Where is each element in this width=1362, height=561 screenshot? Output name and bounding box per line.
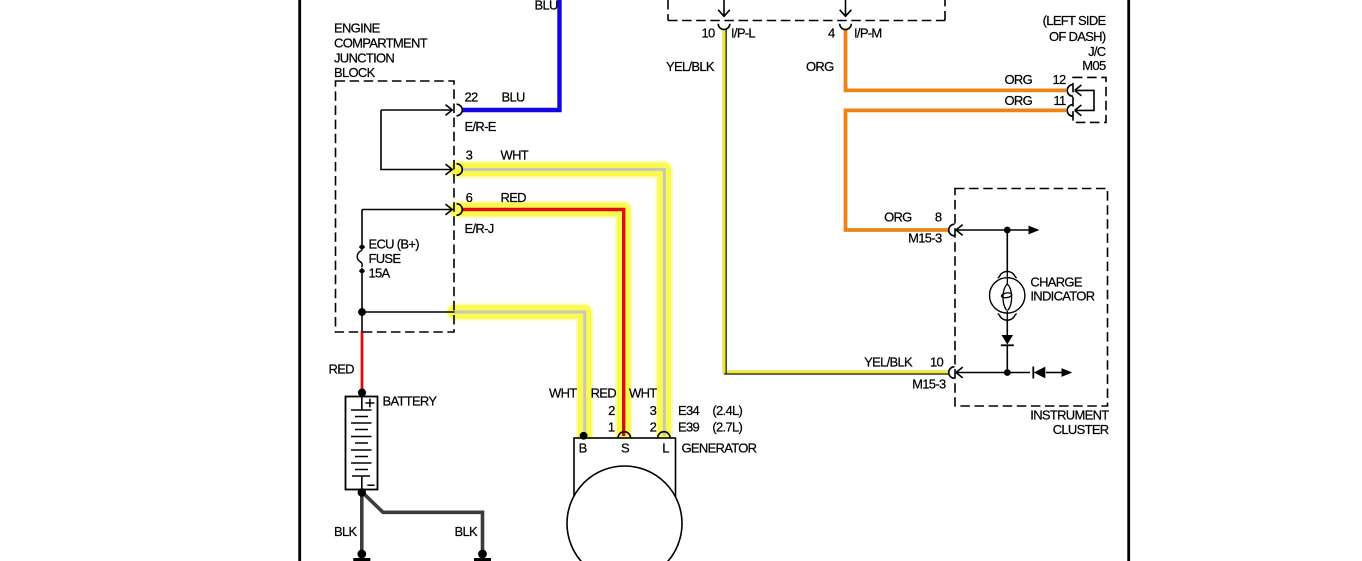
svg-text:ORG: ORG: [1004, 72, 1032, 87]
svg-text:12: 12: [1052, 72, 1066, 87]
svg-text:WHT: WHT: [549, 385, 577, 400]
svg-text:E34: E34: [678, 403, 700, 418]
svg-text:(LEFT SIDE: (LEFT SIDE: [1043, 13, 1107, 28]
svg-text:M15-3: M15-3: [912, 377, 946, 392]
svg-text:OF DASH): OF DASH): [1049, 29, 1106, 44]
svg-text:BLK: BLK: [334, 524, 358, 539]
svg-text:RED: RED: [329, 362, 355, 377]
svg-text:22: 22: [465, 90, 479, 105]
svg-text:ORG: ORG: [884, 209, 912, 224]
svg-text:(2.4L): (2.4L): [712, 403, 742, 418]
svg-text:6: 6: [466, 190, 473, 205]
svg-text:JUNCTION: JUNCTION: [334, 50, 394, 65]
svg-text:YEL/BLK: YEL/BLK: [666, 59, 715, 74]
svg-text:15A: 15A: [369, 266, 391, 281]
svg-text:YEL/BLK: YEL/BLK: [864, 355, 913, 370]
svg-text:1: 1: [608, 420, 615, 435]
svg-text:COMPARTMENT: COMPARTMENT: [334, 36, 428, 51]
svg-text:8: 8: [935, 209, 942, 224]
svg-text:RED: RED: [591, 385, 617, 400]
svg-text:FUSE: FUSE: [369, 251, 402, 266]
svg-text:INDICATOR: INDICATOR: [1030, 288, 1094, 303]
svg-text:E/R-J: E/R-J: [465, 221, 494, 236]
svg-text:BATTERY: BATTERY: [383, 394, 438, 409]
svg-text:L: L: [662, 441, 669, 456]
svg-text:GENERATOR: GENERATOR: [682, 440, 757, 455]
svg-text:INSTRUMENT: INSTRUMENT: [1030, 408, 1109, 423]
svg-text:BLOCK: BLOCK: [334, 65, 376, 80]
svg-text:E39: E39: [678, 420, 700, 435]
svg-text:(2.7L): (2.7L): [712, 420, 742, 435]
svg-text:4: 4: [828, 25, 835, 40]
svg-text:3: 3: [466, 148, 473, 163]
svg-text:11: 11: [1053, 93, 1066, 108]
svg-text:J/C: J/C: [1088, 44, 1106, 59]
svg-text:2: 2: [650, 420, 657, 435]
svg-text:CLUSTER: CLUSTER: [1053, 422, 1109, 437]
svg-text:ORG: ORG: [1004, 93, 1032, 108]
svg-text:I/P-M: I/P-M: [854, 25, 882, 40]
svg-text:BLU: BLU: [535, 0, 559, 13]
svg-text:M15-3: M15-3: [908, 231, 942, 246]
svg-text:3: 3: [650, 403, 657, 418]
svg-text:CHARGE: CHARGE: [1030, 274, 1082, 289]
svg-text:ECU (B+): ECU (B+): [369, 237, 420, 252]
svg-text:E/R-E: E/R-E: [465, 119, 497, 134]
svg-text:RED: RED: [501, 190, 527, 205]
svg-text:B: B: [579, 441, 587, 456]
svg-text:2: 2: [608, 403, 615, 418]
svg-text:S: S: [621, 441, 630, 456]
svg-text:WHT: WHT: [501, 148, 529, 163]
svg-text:M05: M05: [1082, 58, 1106, 73]
svg-text:ENGINE: ENGINE: [334, 21, 381, 36]
svg-text:BLU: BLU: [502, 90, 526, 105]
svg-text:WHT: WHT: [629, 385, 657, 400]
svg-text:I/P-L: I/P-L: [731, 25, 755, 40]
svg-text:10: 10: [701, 25, 715, 40]
svg-text:10: 10: [930, 355, 944, 370]
svg-text:ORG: ORG: [806, 59, 834, 74]
svg-text:BLK: BLK: [455, 524, 479, 539]
